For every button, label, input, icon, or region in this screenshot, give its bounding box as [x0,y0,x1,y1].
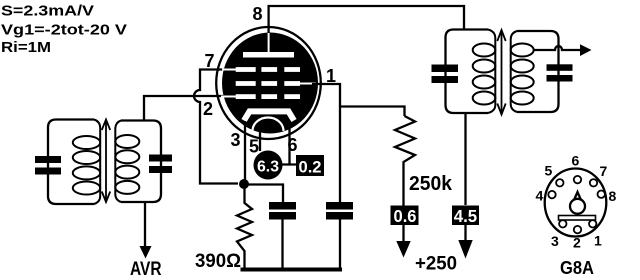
pin label 8 [253,4,263,24]
svg-text:S=2.3mA/V: S=2.3mA/V [1,3,94,20]
svg-text:2: 2 [203,99,213,119]
transformer T2 left winding frame [446,30,489,114]
text Vg1=-2tot-20V [1,22,127,39]
capacitor C6 (in T2 right frame) [547,64,573,81]
pin label 5 [249,137,259,157]
text Ri=1M [1,39,51,56]
svg-text:5: 5 [545,162,553,178]
socket pin labels [536,153,617,251]
tube V1 cathode arch [244,111,294,120]
tube V1 envelope outer circle [216,27,321,139]
svg-text:2: 2 [573,235,581,251]
junction dot cathode node [239,179,249,189]
output wire with hop and arrow [533,44,592,56]
value box 4.5 [452,206,479,227]
svg-text:7: 7 [205,51,215,71]
wire AVR drop from T1 bottom [144,202,146,246]
svg-text:8: 8 [253,4,263,24]
text S=2.3mA/V [1,3,94,20]
pin label 1 [326,66,336,86]
svg-text:3: 3 [231,130,241,150]
tube V1 grid row 3 (control grid, pin 2) [221,94,300,99]
wire pin 3 (cathode) down to junction [244,121,246,184]
svg-text:0.2: 0.2 [299,158,322,177]
transformer T2 left winding loops [473,30,496,114]
value box 0.6 [391,206,419,227]
svg-text:4: 4 [536,188,544,204]
transformer T1 right winding frame [121,121,161,203]
bottom bus wire [241,268,343,272]
value box 0.2 [296,155,324,177]
pin label 3 [231,130,241,150]
transformer T1 right winding loops [115,121,139,203]
tube V1 inner disk [222,33,318,134]
text +250 [415,254,457,275]
socket key (spigot) [570,192,585,214]
transformer T1 left winding frame [48,120,94,205]
resistor 250k [395,116,415,206]
coupling arrow of T1 (double-headed) [102,120,110,203]
transformer T1 left winding loops [73,120,100,205]
tube V1 grid row 2 (screen, pin 1) [236,81,316,86]
wire pin 5 to heater circle [259,127,261,151]
wire screen branch to 250k [340,107,405,117]
tube V1 heater dome [253,118,284,132]
arrow AVR [140,246,152,259]
wire pin 1 (screen) to right, down to C4 [312,84,340,202]
svg-text:7: 7 [600,163,608,179]
svg-text:0.6: 0.6 [394,206,417,226]
wire T2 bottom to +250 (4.5) [464,113,466,205]
capacitor C5 (in T2 left frame) [432,65,459,84]
transformer T2 right winding loops [511,31,534,112]
svg-text:250k: 250k [409,173,453,195]
svg-text:1: 1 [326,66,336,86]
tube V1 anode bar and pin 8 lead [243,33,294,58]
svg-text:6: 6 [572,153,580,169]
arrow below 0.6 [396,225,410,258]
capacitor C2 (in T1 right frame) [149,155,172,174]
pin label 2 [203,99,213,119]
resistor 390 ohm [237,188,252,268]
heater supply circle 6.3 [254,151,283,180]
text 250k [409,173,453,195]
socket G8A outline [545,169,607,237]
svg-text:8: 8 [609,188,617,204]
capacitor C3 [269,202,296,268]
wire top bus from pin 8 to output transformer [269,6,464,40]
text G8A [560,258,594,278]
wire pin 6 down to 0.2 box [282,124,296,165]
tube V1 grid row 1 (pin 7) [222,67,300,72]
svg-text:390Ω: 390Ω [195,251,241,272]
pin label 7 [205,51,215,71]
socket bar [559,216,596,221]
wire T1 top to grid pin 2 [144,96,224,121]
svg-text:3: 3 [551,233,559,249]
transformer T2 right winding frame [517,31,559,112]
svg-text:4.5: 4.5 [454,206,478,226]
svg-text:6.3: 6.3 [257,159,279,176]
svg-text:Ri=1M: Ri=1M [1,39,51,56]
capacitor C1 (in T1 left frame) [35,156,61,175]
wire junction to C3 [244,185,283,203]
socket pin holes [548,176,605,233]
svg-text:5: 5 [249,137,259,157]
capacitor C4 [326,202,353,268]
text 390ohm [195,251,241,272]
wire pin 7 / suppressor to cathode junction (hops over grid wire) [194,70,238,184]
svg-text:AVR: AVR [130,259,162,280]
svg-text:1: 1 [594,233,602,249]
arrow below 4.5 [458,225,472,259]
svg-text:G8A: G8A [560,258,594,278]
text AVR [130,259,162,280]
pin label 6 [288,135,298,155]
svg-text:Vg1=-2tot-20 V: Vg1=-2tot-20 V [1,22,127,39]
svg-text:+250: +250 [415,254,457,275]
coupling arrow of T2 (double-headed) [497,30,505,115]
